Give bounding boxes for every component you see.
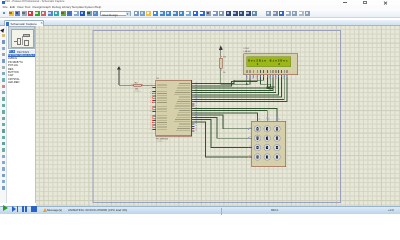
keypad button 0 bbox=[264, 154, 271, 161]
U1 left pin 4 bbox=[153, 93, 156, 95]
U1 left pin 2 bbox=[153, 86, 156, 88]
sheet border bbox=[93, 31, 341, 203]
wire LCD D0 join bbox=[266, 78, 268, 88]
U1 right pin 5 bbox=[192, 92, 195, 94]
LCD pin 5 bbox=[259, 70, 262, 73]
keypad KP1 bbox=[252, 121, 286, 167]
keypad button 7 bbox=[254, 144, 261, 151]
U1 right pin 9 bbox=[192, 101, 195, 103]
svg-text:Dec2Bin Bin2Dec: Dec2Bin Bin2Dec bbox=[248, 58, 288, 62]
U1 left pin 17 bbox=[153, 126, 156, 128]
junction node bbox=[246, 83, 248, 85]
svg-text:1k: 1k bbox=[223, 72, 226, 74]
U1 right pin 3 bbox=[192, 87, 195, 89]
wire LCD RW to ground bbox=[260, 78, 270, 87]
wire R1 bottom to LCD VSS/VDD bbox=[221, 70, 250, 84]
U1 right pin 10 bbox=[192, 103, 195, 105]
wire U1 to LCD D5 bbox=[194, 78, 281, 97]
keypad row pin 1 bbox=[248, 128, 251, 130]
U1 left pin 5 bbox=[153, 95, 156, 97]
U1 left pin 3 bbox=[153, 91, 156, 93]
U1 left pin 16 bbox=[153, 124, 156, 126]
keypad column pin 2 bbox=[266, 118, 268, 121]
U1 right pin 11 bbox=[192, 105, 195, 107]
keypad row pin 2 bbox=[248, 137, 251, 139]
LCD pin 1 bbox=[245, 70, 248, 73]
keypad column pin 3 bbox=[276, 118, 278, 121]
U1 right pin 2 bbox=[192, 85, 195, 87]
U1 right pin 16 bbox=[192, 116, 195, 118]
U1 left pin 1 bbox=[153, 84, 156, 86]
U1 right pin 6 bbox=[192, 94, 195, 96]
U1 right pin 21 bbox=[192, 128, 195, 130]
U1 left pin 7 bbox=[153, 99, 156, 101]
wire U1 to LCD D1 bbox=[194, 78, 270, 88]
status bar bbox=[0, 206, 400, 214]
keypad button 4 bbox=[254, 135, 261, 142]
wire branch to LCD VSS bbox=[246, 78, 248, 84]
LCD pin 3 bbox=[252, 70, 255, 73]
svg-text:U1: U1 bbox=[157, 78, 160, 80]
wire U1 to keypad row D bbox=[194, 122, 248, 157]
U1 left pin 8 bbox=[153, 102, 156, 104]
keypad column pin 1 bbox=[257, 118, 259, 121]
power symbol VCC (left) bbox=[118, 69, 120, 85]
toolbar bbox=[0, 9, 400, 18]
U1 right pin 7 bbox=[192, 96, 195, 98]
LCD pin 10 bbox=[274, 70, 277, 73]
svg-text:R1: R1 bbox=[223, 56, 227, 58]
wire U1 to keypad column 3 bbox=[194, 108, 277, 118]
U1 right pin 4 bbox=[192, 89, 195, 91]
U1 right pin 15 bbox=[192, 114, 195, 116]
wire U1 pin RB1 to LCD RS bbox=[194, 78, 257, 86]
keypad button 2 bbox=[264, 126, 271, 133]
U1 left pin 10 bbox=[153, 108, 156, 110]
keypad button 8 bbox=[264, 144, 271, 151]
LCD pin 14 bbox=[286, 70, 289, 73]
U1 right pin 22 bbox=[192, 130, 195, 132]
svg-text:<TEXT>: <TEXT> bbox=[134, 90, 142, 93]
U1 right pin 14 bbox=[192, 112, 195, 114]
wire U1 to keypad column 1 bbox=[194, 113, 257, 118]
svg-text:PIC16F877A: PIC16F877A bbox=[156, 137, 168, 140]
svg-text:LCD4: LCD4 bbox=[244, 48, 250, 50]
U1 right pin 17 bbox=[192, 119, 195, 121]
U1 left pin 13 bbox=[153, 117, 156, 119]
svg-text:LM016L: LM016L bbox=[244, 51, 252, 53]
menu bar bbox=[0, 5, 400, 10]
LCD pin 2 bbox=[249, 70, 252, 73]
svg-text:<TEXT>: <TEXT> bbox=[156, 140, 164, 143]
left panel bbox=[8, 26, 36, 203]
U1 left pin 18 bbox=[153, 128, 156, 130]
wire U1 to LCD D2 bbox=[194, 78, 273, 90]
LCD pin 4 bbox=[256, 70, 259, 73]
keypad button 6 bbox=[274, 135, 281, 142]
wire U1 to LCD D4 bbox=[194, 78, 278, 95]
LCD pin 6 bbox=[262, 70, 265, 73]
U1 right pin 20 bbox=[192, 125, 195, 127]
LCD pin 11 bbox=[277, 70, 280, 73]
keypad button * bbox=[254, 154, 261, 161]
U1 right pin 18 bbox=[192, 121, 195, 123]
wire U1 to keypad row C bbox=[194, 120, 248, 148]
wire U1 to LCD D3 bbox=[194, 78, 276, 92]
U1 right pin 19 bbox=[192, 123, 195, 125]
svg-text:1: 1 bbox=[257, 62, 259, 66]
LCD pin 9 bbox=[272, 70, 275, 73]
tab bar bbox=[0, 20, 400, 27]
wire U1 to keypad row A bbox=[194, 115, 248, 129]
wire power to resistor R3 bbox=[119, 84, 132, 86]
LCD pin 12 bbox=[280, 70, 283, 73]
svg-text:2: 2 bbox=[278, 62, 280, 66]
wire U1 to LCD D6 bbox=[194, 78, 284, 99]
keypad button 5 bbox=[264, 135, 271, 142]
keypad row pin 4 bbox=[248, 156, 251, 158]
keypad button 9 bbox=[274, 144, 281, 151]
wire U1 pin RB0 to LCD E bbox=[194, 78, 263, 83]
resistor R3 bbox=[131, 85, 132, 86]
U1 left pin 11 bbox=[153, 111, 156, 113]
wire U1 to LCD D7 bbox=[194, 78, 287, 101]
resistor R1 bbox=[220, 56, 221, 57]
LCD pin 13 bbox=[283, 70, 286, 73]
LCD screen bbox=[247, 57, 291, 67]
U1 right pin 12 bbox=[192, 107, 195, 109]
U1 left pin 15 bbox=[153, 122, 156, 124]
U1 right pin 8 bbox=[192, 98, 195, 100]
ground bbox=[267, 86, 275, 88]
LCD pin 7 bbox=[266, 70, 269, 73]
wire U1 to keypad column 2 bbox=[194, 111, 267, 118]
keypad button # bbox=[274, 154, 281, 161]
LCD pin 8 bbox=[269, 70, 272, 73]
power symbol VCC (above R1) bbox=[220, 50, 222, 57]
U1 right pin 13 bbox=[192, 110, 195, 112]
title bar bbox=[0, 0, 400, 5]
U1 left pin 9 bbox=[153, 106, 156, 108]
keypad button 1 bbox=[254, 126, 261, 133]
wire R3 to U1 pin1 bbox=[143, 84, 156, 86]
U1 left pin 12 bbox=[153, 115, 156, 117]
U1 right pin 1 bbox=[192, 83, 195, 85]
keypad button 3 bbox=[274, 126, 281, 133]
U1 left pin 6 bbox=[153, 97, 156, 99]
wire U1 to keypad row B bbox=[194, 117, 248, 138]
U1 left pin 14 bbox=[153, 120, 156, 122]
op-amp U1 microcontroller PIC16F877A bbox=[156, 80, 192, 136]
keypad row pin 3 bbox=[248, 147, 251, 149]
left tool column bbox=[0, 26, 7, 203]
schematic canvas bbox=[36, 26, 400, 206]
